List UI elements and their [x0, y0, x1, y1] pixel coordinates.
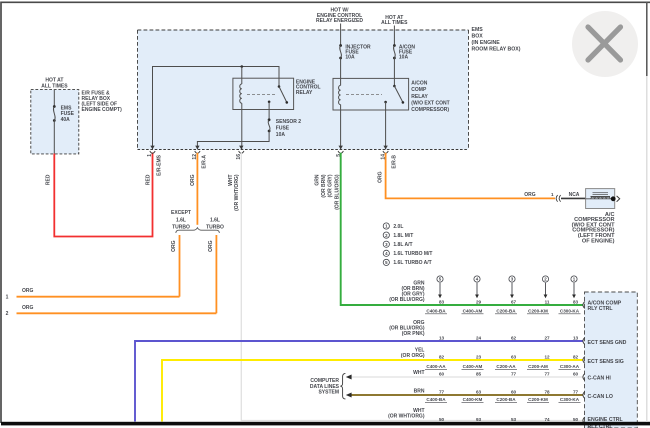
svg-text:(W/O EXT CONT: (W/O EXT CONT	[411, 100, 449, 106]
svg-text:29: 29	[476, 299, 482, 304]
svg-text:ALL TIMES: ALL TIMES	[381, 20, 408, 26]
svg-text:C300-AA: C300-AA	[560, 364, 580, 369]
svg-text:1.6L TURBO M/T: 1.6L TURBO M/T	[393, 251, 432, 257]
svg-text:67: 67	[511, 299, 517, 304]
svg-text:74: 74	[544, 417, 550, 422]
svg-text:FUSE: FUSE	[276, 126, 290, 132]
svg-text:ORG: ORG	[190, 174, 196, 186]
svg-text:RELAY: RELAY	[411, 94, 428, 100]
svg-text:C-CAN LO: C-CAN LO	[588, 394, 613, 400]
svg-text:ORG: ORG	[22, 305, 34, 311]
svg-text:1.8L M/T: 1.8L M/T	[393, 233, 413, 239]
svg-text:83: 83	[439, 299, 445, 304]
svg-text:ORG: ORG	[208, 240, 214, 252]
svg-text:77: 77	[573, 390, 579, 395]
svg-text:C300-KA: C300-KA	[560, 308, 580, 313]
svg-text:10A: 10A	[345, 55, 355, 61]
svg-text:63: 63	[476, 390, 482, 395]
svg-text:EMS: EMS	[472, 27, 484, 33]
svg-text:C400-BA: C400-BA	[426, 308, 446, 313]
svg-text:C400-AA: C400-AA	[426, 364, 446, 369]
svg-text:13: 13	[439, 336, 445, 341]
svg-text:82: 82	[439, 355, 445, 360]
svg-text:ORG: ORG	[171, 240, 177, 252]
svg-text:1: 1	[6, 295, 9, 301]
svg-text:63: 63	[511, 355, 517, 360]
svg-text:83: 83	[573, 299, 579, 304]
svg-text:85: 85	[476, 372, 482, 377]
svg-text:ENGINE COMPT): ENGINE COMPT)	[82, 107, 123, 113]
svg-text:40A: 40A	[61, 117, 71, 123]
svg-text:C200-BA: C200-BA	[496, 308, 516, 313]
svg-text:1: 1	[551, 192, 554, 197]
svg-text:(OR ORG): (OR ORG)	[401, 353, 425, 359]
svg-text:COMPRESSOR): COMPRESSOR)	[411, 107, 449, 113]
svg-text:C200-BA: C200-BA	[496, 397, 516, 402]
svg-text:NCA: NCA	[569, 192, 580, 198]
svg-text:27: 27	[544, 336, 550, 341]
svg-text:ECT SENS SIG: ECT SENS SIG	[588, 359, 624, 365]
svg-text:53: 53	[511, 417, 517, 422]
svg-text:(OR PNK): (OR PNK)	[402, 331, 425, 337]
svg-text:ROOM RELAY BOX): ROOM RELAY BOX)	[472, 46, 521, 52]
svg-text:24: 24	[476, 336, 482, 341]
svg-text:11: 11	[545, 299, 550, 304]
svg-text:62: 62	[511, 336, 517, 341]
svg-text:23: 23	[476, 355, 482, 360]
svg-text:1.8L A/T: 1.8L A/T	[393, 242, 412, 248]
svg-text:EXCEPT: EXCEPT	[171, 210, 191, 216]
svg-text:C200-AM: C200-AM	[528, 364, 548, 369]
svg-text:WHT: WHT	[228, 175, 234, 186]
svg-text:60: 60	[511, 390, 517, 395]
svg-text:2: 2	[6, 311, 9, 317]
svg-text:60: 60	[573, 372, 579, 377]
svg-text:TURBO: TURBO	[206, 224, 224, 230]
svg-text:(OR WHT/ORG): (OR WHT/ORG)	[234, 174, 240, 211]
svg-text:(OR BLU/ORG): (OR BLU/ORG)	[334, 174, 340, 210]
svg-text:(OR BRN): (OR BRN)	[321, 174, 327, 197]
svg-text:E/R-B: E/R-B	[391, 155, 397, 169]
svg-text:(OR WHT/ORG): (OR WHT/ORG)	[388, 413, 425, 419]
svg-text:(OR BLU/ORG): (OR BLU/ORG)	[389, 297, 425, 303]
svg-text:12: 12	[544, 355, 550, 360]
svg-text:HOT AT: HOT AT	[45, 77, 63, 83]
svg-text:E/R-A: E/R-A	[202, 155, 208, 169]
svg-text:C400-BA: C400-BA	[426, 397, 446, 402]
svg-text:1.6L: 1.6L	[176, 217, 186, 223]
svg-text:C300-KA: C300-KA	[560, 397, 580, 402]
svg-text:BOX: BOX	[472, 34, 484, 40]
svg-text:COMP: COMP	[411, 87, 427, 93]
svg-text:77: 77	[544, 372, 550, 377]
svg-text:E/R-EMS: E/R-EMS	[157, 154, 163, 176]
svg-text:C400-KM: C400-KM	[463, 397, 483, 402]
svg-text:ORG: ORG	[524, 192, 536, 198]
svg-text:C200-AA: C200-AA	[496, 364, 516, 369]
svg-text:ECT SENS GND: ECT SENS GND	[588, 340, 627, 346]
svg-text:(IN ENGINE: (IN ENGINE	[472, 40, 501, 46]
svg-text:1.6L: 1.6L	[210, 217, 220, 223]
svg-text:WHT: WHT	[413, 370, 424, 376]
svg-text:1: 1	[147, 154, 153, 157]
svg-text:C-CAN HI: C-CAN HI	[588, 375, 612, 381]
svg-text:OF ENGINE): OF ENGINE)	[582, 238, 615, 244]
svg-text:A/CON: A/CON	[411, 81, 428, 87]
svg-text:60: 60	[439, 372, 445, 377]
svg-text:RLY CTRL: RLY CTRL	[588, 306, 614, 312]
svg-text:RELAY: RELAY	[296, 90, 313, 96]
svg-text:2.0L: 2.0L	[393, 224, 403, 230]
svg-text:13: 13	[573, 336, 579, 341]
svg-text:10A: 10A	[399, 55, 409, 61]
svg-text:ORG: ORG	[22, 288, 34, 294]
svg-text:SYSTEM: SYSTEM	[318, 390, 339, 396]
svg-text:1.6L TURBO A/T: 1.6L TURBO A/T	[393, 260, 431, 266]
svg-text:93: 93	[476, 417, 482, 422]
svg-text:C400-AM: C400-AM	[463, 308, 483, 313]
svg-text:10A: 10A	[276, 132, 286, 138]
svg-text:77: 77	[511, 372, 517, 377]
svg-text:ALL TIMES: ALL TIMES	[41, 84, 68, 90]
svg-text:C400-AM: C400-AM	[463, 364, 483, 369]
svg-text:78: 78	[544, 390, 550, 395]
svg-text:50: 50	[573, 417, 579, 422]
svg-text:C200-KM: C200-KM	[528, 397, 548, 402]
svg-text:BRN: BRN	[414, 388, 425, 394]
svg-text:GRN: GRN	[315, 174, 321, 186]
svg-text:C200-KM: C200-KM	[528, 308, 548, 313]
svg-text:ORG: ORG	[377, 171, 383, 183]
svg-text:RED: RED	[45, 174, 51, 185]
svg-text:SENSOR 2: SENSOR 2	[276, 119, 302, 125]
svg-text:77: 77	[439, 390, 445, 395]
svg-text:RED: RED	[145, 174, 151, 185]
svg-text:RELAY ENERGIZED: RELAY ENERGIZED	[316, 18, 363, 24]
svg-text:50: 50	[439, 417, 445, 422]
svg-text:TURBO: TURBO	[172, 224, 190, 230]
svg-text:(OR GRY): (OR GRY)	[327, 174, 333, 197]
svg-text:82: 82	[573, 355, 579, 360]
